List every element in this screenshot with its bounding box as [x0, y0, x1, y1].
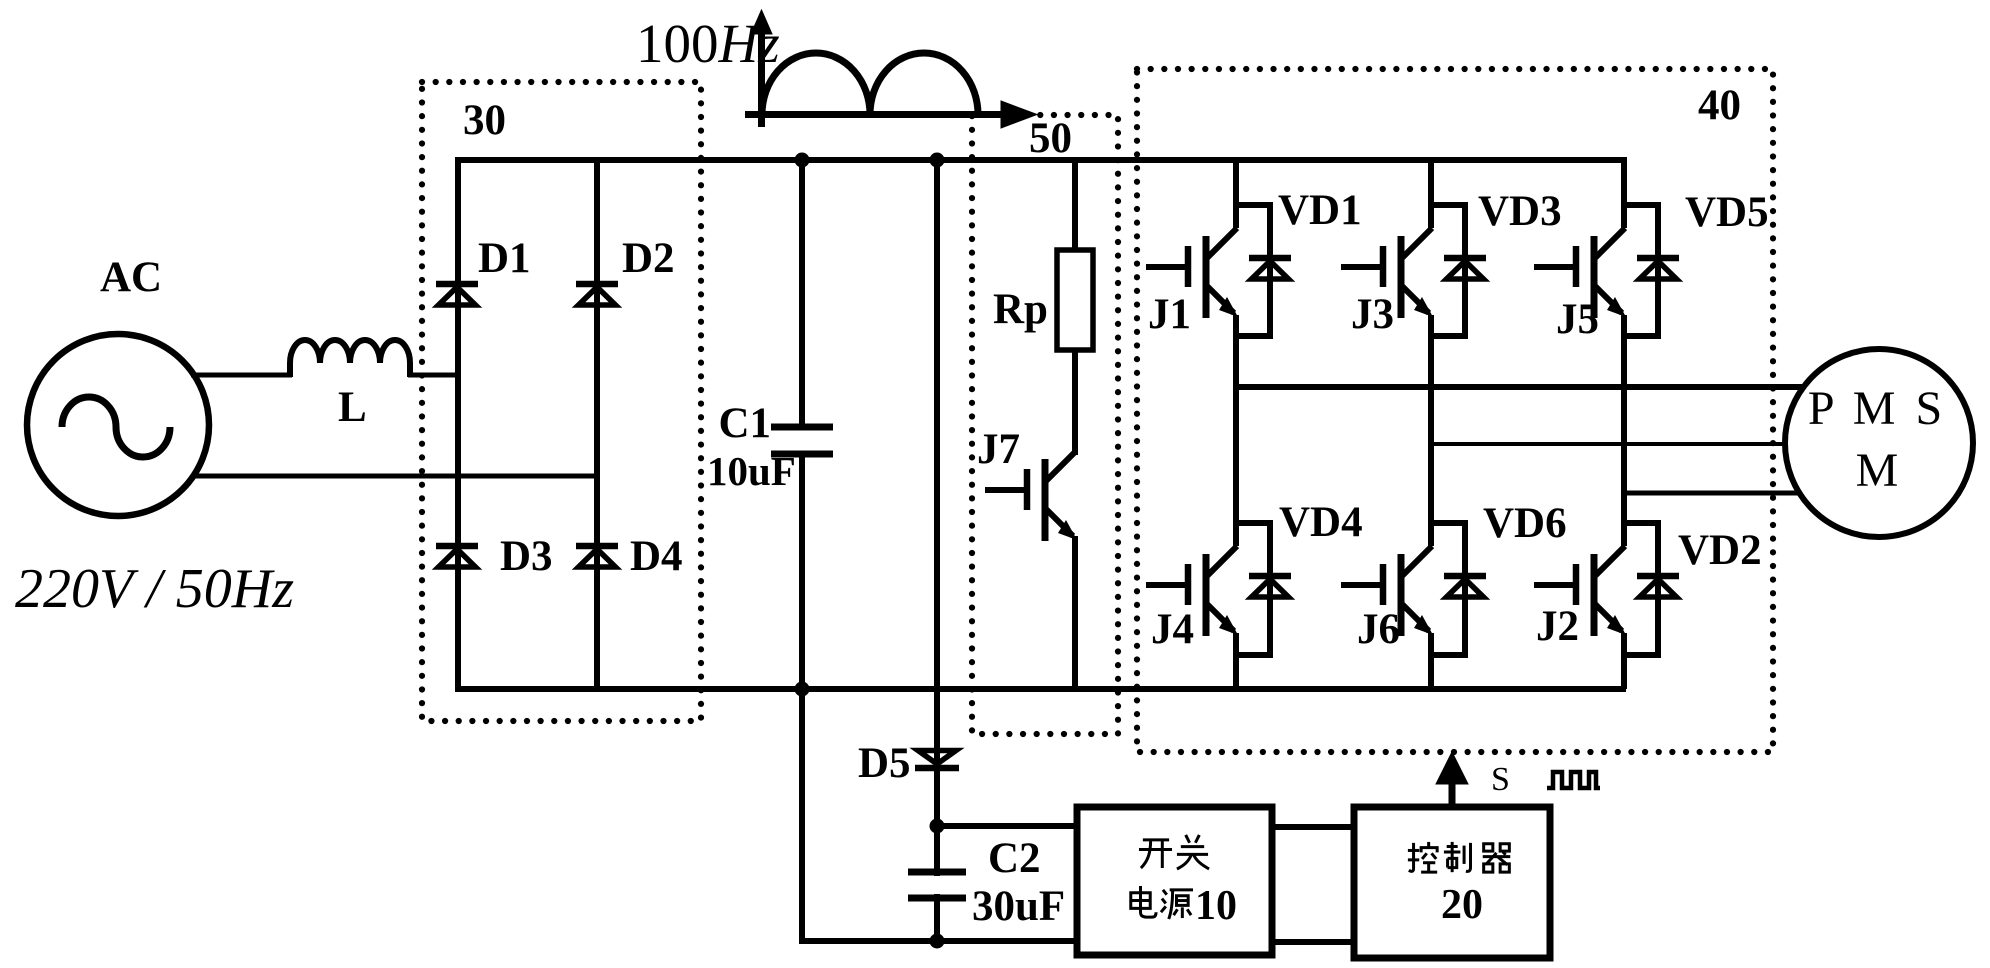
svg-text:VD4: VD4: [1279, 499, 1363, 546]
svg-text:30: 30: [463, 97, 506, 144]
svg-text:J2: J2: [1536, 603, 1579, 650]
svg-text:20: 20: [1441, 882, 1483, 928]
svg-text:VD1: VD1: [1278, 187, 1362, 234]
svg-text:50: 50: [1029, 115, 1072, 162]
svg-text:D2: D2: [622, 235, 675, 282]
svg-text:J5: J5: [1556, 296, 1599, 343]
svg-text:D1: D1: [478, 235, 531, 282]
svg-text:40: 40: [1698, 82, 1741, 129]
svg-text:AC: AC: [100, 254, 162, 301]
svg-text:10uF: 10uF: [707, 448, 796, 494]
svg-text:D5: D5: [858, 740, 911, 787]
svg-text:J6: J6: [1357, 606, 1400, 653]
svg-text:C2: C2: [988, 835, 1041, 882]
svg-text:220V / 50Hz: 220V / 50Hz: [15, 558, 294, 620]
svg-text:M: M: [1856, 444, 1899, 497]
svg-text:J1: J1: [1148, 291, 1191, 338]
svg-text:D3: D3: [500, 533, 553, 580]
svg-text:S: S: [1491, 761, 1510, 798]
svg-text:J4: J4: [1151, 606, 1194, 653]
svg-text:Rp: Rp: [993, 286, 1048, 333]
svg-text:30uF: 30uF: [972, 883, 1065, 930]
svg-text:D4: D4: [630, 533, 683, 580]
svg-text:VD6: VD6: [1483, 500, 1567, 547]
svg-text:L: L: [338, 384, 367, 431]
svg-text:J3: J3: [1351, 291, 1394, 338]
svg-text:VD5: VD5: [1685, 189, 1769, 236]
svg-text:100Hz: 100Hz: [636, 13, 780, 74]
svg-text:VD3: VD3: [1478, 188, 1562, 235]
svg-text:P M S: P M S: [1808, 382, 1946, 435]
svg-text:J7: J7: [977, 426, 1020, 473]
svg-text:VD2: VD2: [1678, 527, 1762, 574]
svg-text:10: 10: [1195, 883, 1237, 929]
svg-text:C1: C1: [718, 400, 771, 447]
